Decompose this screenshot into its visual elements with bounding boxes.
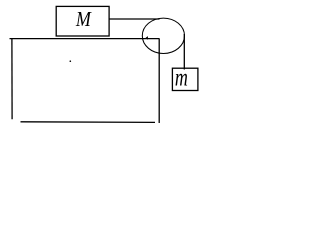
table top edge	[10, 38, 160, 40]
stray dot on table	[70, 60, 72, 62]
block M box	[56, 6, 109, 36]
arrowhead on table line	[146, 36, 148, 40]
pulley circle	[142, 18, 184, 53]
table left edge	[11, 38, 13, 119]
string from pulley to m	[183, 34, 185, 70]
table bottom edge	[21, 121, 156, 124]
svg-text:m: m	[175, 63, 188, 92]
svg-text:M: M	[75, 7, 92, 31]
table right edge	[158, 39, 160, 123]
hanging mass m box	[172, 68, 198, 90]
string from M to pulley	[109, 18, 160, 20]
